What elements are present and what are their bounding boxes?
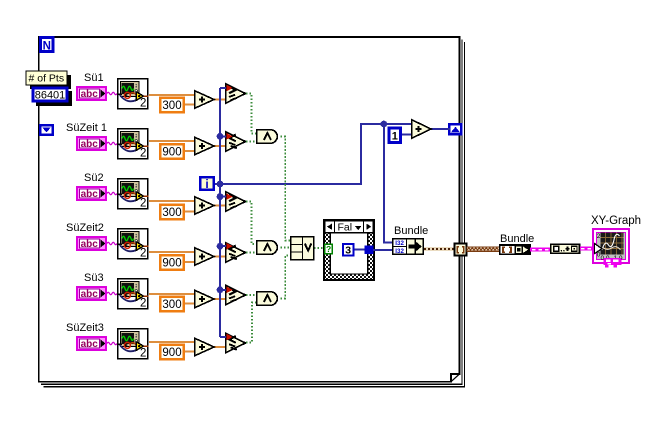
wire bool cmp5 to and3 [246,294,256,296]
svg-text:SüZeit3: SüZeit3 [66,322,104,334]
wire stub [220,87,226,89]
string terminal SüZeit 1 [77,137,106,150]
wire stub [220,135,226,137]
junction [217,286,224,293]
wire stub [220,245,226,247]
numeric constant 900 [160,144,184,159]
wire bool and2 to or [281,247,291,249]
svg-text:Sü2: Sü2 [84,172,104,184]
wire increment out [431,128,450,130]
compare function [226,285,246,304]
add function increment [412,120,431,138]
svg-text:Bundle: Bundle [394,225,428,237]
svg-text:Fal: Fal [338,222,353,234]
wire numeric [149,200,194,202]
numeric constant 300 [160,205,184,220]
and gate 1 [257,130,278,143]
numeric constant 300 [160,297,184,312]
wire bool cmp3 to and2 [246,202,256,245]
left shift register [40,125,53,135]
add function [195,338,214,355]
wire cluster rope magenta 2 [580,247,594,251]
svg-text:I32: I32 [395,248,404,255]
junction [217,243,224,250]
case selector header [325,221,373,234]
junction [217,193,224,200]
compare function [226,84,246,103]
junction [217,133,224,140]
wire numeric [185,261,194,263]
string terminal Sü3 [77,287,106,300]
junction [380,121,387,128]
junction [217,181,224,188]
wire cluster dotted [424,247,454,251]
add function [195,290,214,307]
for-loop border [39,37,465,387]
wire numeric [214,145,226,147]
wire stub [220,289,226,291]
wire numeric [185,303,194,305]
wire bool cmp6 to and3 [246,303,256,343]
wire numeric [214,99,226,101]
compound or node [291,237,314,260]
wire numeric [214,298,226,300]
svg-text:Bundle: Bundle [500,233,534,245]
subVI scan icon [118,329,149,360]
svg-text:I32: I32 [395,240,404,247]
string terminal Sü2 [77,187,106,200]
xy-graph legend [604,258,622,267]
wire stub [220,336,226,338]
string terminal SüZeit2 [77,237,106,250]
case structure border [324,220,374,280]
wire string [107,192,117,195]
xy-graph terminal [593,229,629,263]
wire bool cmp4 to and2 [246,252,256,254]
wire i vertical [219,88,221,337]
svg-text:N: N [43,41,51,53]
svg-text:SüZeit2: SüZeit2 [66,222,104,234]
svg-text:i: i [205,177,208,191]
coercion arrow [227,334,233,340]
loop count terminal N [41,38,54,53]
and gate 3 [257,292,278,305]
wire numeric [185,150,194,152]
wire string [107,92,117,95]
svg-text:Sü1: Sü1 [84,72,104,84]
coercion arrow [227,287,233,293]
constant shadow [36,91,72,106]
wire bool or to case [314,247,324,249]
svg-text:Sü3: Sü3 [84,272,104,284]
svg-text:300: 300 [162,100,181,112]
wire numeric [185,351,194,353]
svg-text:300: 300 [162,207,181,219]
wire stub [220,196,226,198]
numeric constant 900 [160,255,184,270]
bundle function 2 [500,245,530,254]
coercion arrow [227,193,233,199]
coercion arrow [227,243,233,249]
right shift register [449,124,461,134]
wire numeric [214,346,226,348]
wire string [107,292,117,295]
svg-text:1: 1 [392,131,398,143]
numeric constant 1 [389,128,401,143]
case selector terminal ? [325,244,332,254]
svg-text:900: 900 [162,257,181,269]
wire to bundle [384,124,393,243]
add function [195,197,214,214]
wire bool and3 to or [281,256,291,299]
iteration terminal i [200,177,213,191]
svg-text:SüZeit 1: SüZeit 1 [66,122,107,134]
wire bool cmp1 to and1 [246,94,256,134]
svg-text:# of Pts: # of Pts [29,73,65,85]
wire string [107,242,117,245]
case tunnel [365,246,373,254]
svg-text:3: 3 [345,244,351,256]
svg-text:300: 300 [162,299,181,311]
compare function [226,192,246,211]
compare function [226,333,246,352]
wire numeric [149,293,194,295]
svg-text:86401: 86401 [35,90,66,102]
numeric constant 3 [343,244,354,256]
wire bool and1 to or [281,137,291,241]
wire array-of-cluster rope [467,248,501,250]
svg-text:XY-Graph: XY-Graph [591,215,641,227]
string terminal SüZeit3 [77,337,106,350]
numeric constant 300 [160,98,184,113]
add function [195,248,214,265]
svg-text:900: 900 [162,146,181,158]
add function [195,91,214,108]
wire numeric [149,140,194,142]
wire i horizontal [215,124,411,184]
subVI scan icon [118,79,149,110]
subVI scan icon [118,179,149,210]
wire case to bundle [373,249,393,251]
and gate 2 [257,241,278,254]
wire cluster rope magenta [530,248,551,252]
wire numeric [185,210,194,212]
loop tunnel [] [455,244,467,256]
build node [551,244,580,253]
numeric constant 86401 [33,88,67,102]
subVI scan icon [118,279,149,310]
numeric constant 900 [160,345,184,360]
label shadow [30,75,71,89]
wire case inner [354,249,366,251]
wire numeric [149,94,194,96]
wire numeric [214,205,226,207]
compare function [226,243,246,262]
compare function [226,132,246,151]
wire constant 1 [400,134,412,136]
coercion arrow [227,133,233,139]
add function [195,137,214,154]
wire numeric [149,251,194,253]
wire numeric [149,341,194,343]
svg-text:900: 900 [162,347,181,359]
wire string [107,142,117,145]
svg-text:2: 2 [597,233,601,240]
wire bool cmp2 to and1 [246,141,256,143]
wire numeric [214,256,226,258]
bundle function 1 [393,239,424,255]
wire string [107,342,117,345]
subVI scan icon [118,229,149,260]
label "# of Pts" [26,71,67,85]
subVI scan icon [118,129,149,160]
svg-text:?: ? [326,244,331,254]
string terminal Sü1 [77,87,106,100]
wire numeric [185,103,194,105]
coercion arrow [227,85,233,91]
